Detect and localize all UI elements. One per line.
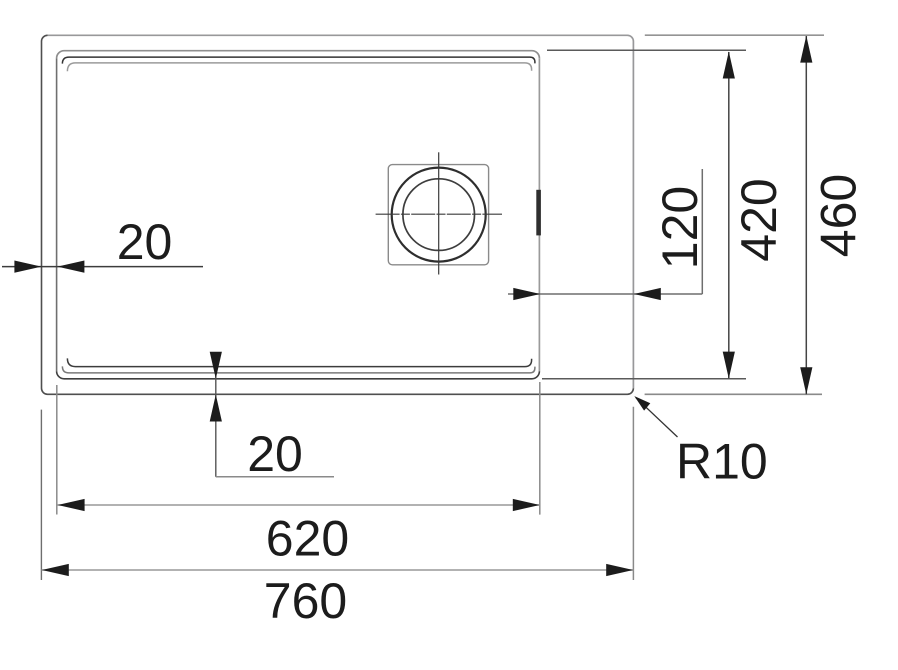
extension line outer bottom edge to 460 [645,393,822,395]
extension line bowl bottom edge to 420 [542,378,746,380]
extension line bowl left edge down to 620 [56,385,58,515]
label 420 (rotated) [731,178,787,261]
svg-text:460: 460 [811,174,867,257]
bowl rim profile line upper gray with curled ends [67,63,531,71]
extension line outer left edge down to 760 [40,410,42,580]
bowl opening right edge [538,58,540,371]
dimension 20 left line [2,261,203,273]
svg-text:760: 760 [264,573,347,629]
drain inner circle [403,179,475,251]
sink outer outline top and right edges [48,35,634,388]
bowl opening bottom edge [57,371,540,379]
dimension 420 line [723,52,735,379]
svg-text:120: 120 [652,186,708,269]
label 460 (rotated) [811,174,867,257]
label 120 (rotated) [652,186,708,269]
R10 leader arrow [634,396,677,437]
extension line bowl top edge to 420 [547,49,746,51]
drain outer circle [392,168,486,262]
bowl rim profile line lower gray with curled ends [62,366,535,373]
svg-text:20: 20 [247,426,303,482]
extension line outer top edge to 460 [645,34,824,36]
dimension 20 bottom line [210,352,334,477]
svg-text:620: 620 [266,511,349,567]
extension line outer right edge down to 760 [632,407,634,580]
svg-text:R10: R10 [676,434,768,490]
dimension 760 line [42,564,634,576]
dark tick mark on bowl right edge [536,190,541,236]
dimension 620 line [57,499,540,511]
drain square outline [388,165,488,265]
svg-text:20: 20 [117,214,173,270]
dimension 120 line [508,169,702,300]
extension line bowl right edge down to 620 [539,382,541,515]
drain horizontal centerline [376,213,502,215]
label 20 left [117,214,173,270]
bowl rim profile line lower dark with curled ends [67,358,531,366]
bowl rim profile line upper dark with curled ends [62,57,535,64]
sink outer outline left and bottom edges [42,35,634,394]
dimension 460 line [800,36,812,395]
bowl opening top edge (620x420 R10) [57,51,540,59]
label R10 [676,434,768,490]
label 20 bottom [247,426,303,482]
label 760 [264,573,347,629]
label 620 [266,511,349,567]
bowl opening left edge [56,58,58,371]
svg-text:420: 420 [731,178,787,261]
drain vertical centerline [438,152,440,274]
